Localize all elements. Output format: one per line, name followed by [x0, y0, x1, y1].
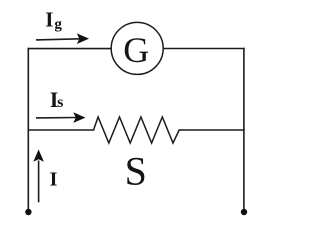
resistor S (shunt zigzag): [94, 117, 180, 143]
node terminal A (bottom-left dot): [25, 209, 31, 215]
current arrow Ig: [36, 33, 89, 44]
svg-text:I: I: [50, 168, 58, 190]
svg-text:I: I: [45, 7, 53, 31]
wire top left (to galvanometer): [28, 48, 111, 50]
node terminal B (bottom-right dot): [241, 209, 247, 215]
wire left vertical: [27, 49, 29, 212]
current arrow Is: [36, 112, 86, 123]
wire middle left (to resistor S): [28, 129, 93, 131]
wire top right (from galvanometer): [163, 48, 244, 50]
svg-text:s: s: [57, 94, 63, 111]
label I: [50, 168, 58, 190]
label S (resistor value): [125, 149, 147, 194]
svg-text:g: g: [54, 17, 62, 33]
svg-text:S: S: [125, 149, 147, 194]
current arrow I (input current): [33, 150, 44, 203]
label Is: [50, 87, 64, 112]
label Ig: [45, 7, 62, 32]
galvanometer U1 (G): [111, 22, 163, 74]
svg-text:G: G: [123, 30, 149, 70]
wire middle right (from resistor S): [179, 129, 244, 131]
wire right vertical: [243, 49, 245, 213]
